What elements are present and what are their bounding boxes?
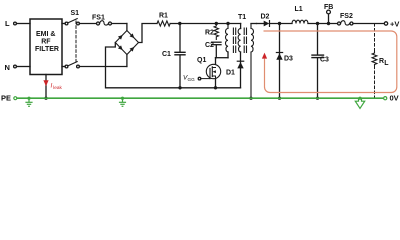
svg-text:RF: RF (41, 38, 51, 45)
svg-text:R2: R2 (205, 30, 214, 37)
svg-text:T1: T1 (238, 14, 246, 21)
svg-text:L1: L1 (295, 6, 303, 13)
svg-text:EMI &: EMI & (36, 31, 55, 38)
svg-text:R: R (379, 58, 384, 65)
svg-text:D2: D2 (261, 14, 270, 21)
svg-text:+V: +V (390, 19, 399, 28)
svg-text:L: L (384, 60, 389, 67)
svg-text:0V: 0V (390, 93, 399, 102)
svg-text:C2: C2 (205, 42, 214, 49)
svg-text:C3: C3 (320, 57, 329, 64)
svg-text:L: L (5, 19, 10, 28)
svg-text:FB: FB (324, 4, 333, 11)
svg-text:C1: C1 (162, 51, 171, 58)
svg-text:leak: leak (53, 85, 62, 90)
svg-text:FS1: FS1 (92, 14, 105, 21)
svg-text:N: N (5, 63, 10, 72)
svg-text:PE: PE (1, 93, 11, 102)
svg-text:D1: D1 (226, 70, 235, 77)
svg-text:FS2: FS2 (340, 13, 353, 20)
svg-text:I: I (51, 83, 53, 90)
svg-text:FILTER: FILTER (35, 46, 59, 53)
svg-text:D3: D3 (284, 56, 293, 63)
svg-text:R1: R1 (159, 13, 168, 20)
svg-text:GG: GG (188, 77, 196, 82)
svg-text:Q1: Q1 (197, 57, 206, 64)
svg-text:S1: S1 (71, 10, 80, 17)
